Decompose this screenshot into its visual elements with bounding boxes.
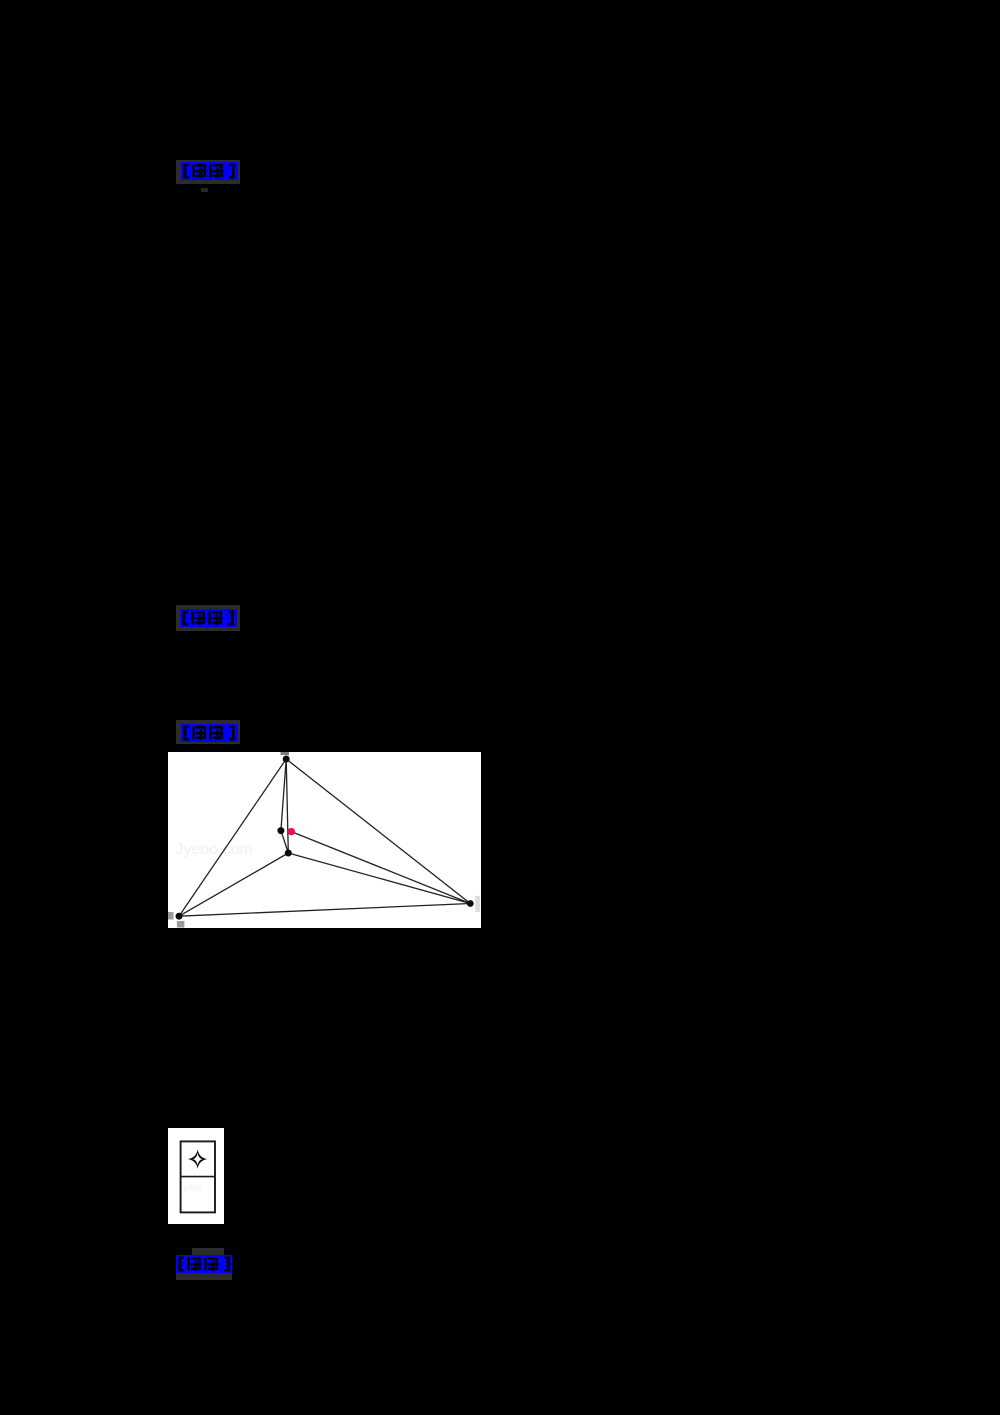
- point O: [284, 850, 291, 857]
- edge A-C: [179, 904, 470, 917]
- table frame: [181, 1141, 215, 1212]
- section label block 2 (【分析】): [176, 605, 240, 631]
- section label block 4 (【点评】): [192, 1248, 224, 1256]
- svg-text:yeoo: yeoo: [183, 1181, 202, 1191]
- edge O-C: [288, 853, 470, 904]
- edge R-C: [291, 832, 470, 904]
- edge P-O: [286, 759, 288, 853]
- handle left of A: [168, 912, 174, 920]
- point E: [277, 827, 284, 834]
- edge P-C: [286, 759, 470, 904]
- section label block 3 (【解答】): [176, 720, 240, 744]
- figure image (tetrahedron) white box: [168, 752, 481, 928]
- handle at P (top, clipped): [280, 752, 289, 755]
- small gray mark under block 1: [201, 188, 208, 192]
- edge E-O: [280, 831, 287, 853]
- star (4-point sparkle): [188, 1149, 208, 1169]
- wires: edges of solid: [179, 759, 470, 916]
- point P: [282, 756, 289, 763]
- svg-text:Jyeoo.com: Jyeoo.com: [175, 841, 252, 858]
- table divider: [180, 1175, 215, 1177]
- point C: [466, 900, 473, 907]
- edge P-E: [280, 759, 285, 831]
- edge A-O: [179, 853, 288, 916]
- small white box with star image: [168, 1128, 224, 1225]
- edge P-A: [179, 759, 286, 916]
- section label block 1 (【考点】 highlighted link): [176, 160, 240, 184]
- point A: [175, 913, 182, 920]
- handle right of C: [475, 896, 480, 912]
- point R (red): [287, 828, 294, 835]
- handle below A: [176, 921, 184, 928]
